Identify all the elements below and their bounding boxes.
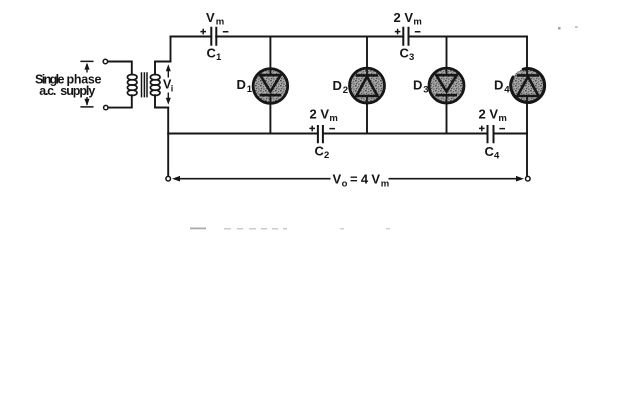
label Vi with arrow	[166, 64, 171, 105]
svg-text:2: 2	[343, 85, 348, 96]
wire input bottom	[108, 95, 132, 107]
scan speck 1	[558, 27, 561, 30]
svg-text:C: C	[315, 144, 325, 159]
wire D2 bottom	[366, 103, 368, 134]
wire D2 top	[366, 37, 368, 69]
faint caption remnants	[190, 228, 390, 230]
capacitor C1 polarity marks	[200, 29, 228, 35]
capacitor C1	[211, 27, 216, 46]
svg-text:2: 2	[324, 150, 329, 161]
svg-text:C: C	[485, 144, 495, 159]
input terminal bottom	[104, 105, 108, 109]
svg-text:3: 3	[409, 52, 414, 63]
wire top rail	[171, 36, 528, 38]
transformer T1 core	[142, 72, 148, 97]
svg-text:o: o	[342, 178, 348, 189]
diode D4	[511, 69, 545, 103]
capacitor C4 polarity marks	[479, 126, 505, 132]
transformer T1 secondary winding	[150, 75, 160, 96]
wire left vertical (secondary top to top rail)	[170, 37, 172, 62]
svg-text:V: V	[206, 10, 215, 25]
svg-text:= 4 V: = 4 V	[350, 171, 380, 186]
wire input top	[108, 62, 132, 75]
transformer T1 primary winding	[127, 75, 137, 96]
svg-text:m: m	[381, 178, 389, 189]
wire D3 top	[446, 37, 448, 69]
svg-text:D: D	[333, 78, 342, 93]
wire D1 bottom	[269, 103, 271, 133]
svg-text:a.c.: a.c.	[39, 84, 56, 98]
svg-text:C: C	[207, 45, 217, 60]
wire bottom rail	[168, 133, 527, 135]
svg-text:m: m	[329, 113, 337, 124]
svg-text:m: m	[216, 17, 224, 28]
capacitor C2	[318, 125, 323, 143]
input terminal top	[103, 59, 107, 63]
scan speck 2	[575, 26, 578, 28]
svg-text:m: m	[498, 113, 506, 124]
wire secondary top stub	[155, 62, 171, 75]
wire secondary bottom stub	[155, 95, 168, 107]
wire D1 top	[269, 37, 271, 69]
capacitor C4	[488, 125, 494, 143]
svg-text:1: 1	[216, 52, 222, 63]
svg-text:1: 1	[247, 84, 253, 95]
svg-text:2 V: 2 V	[310, 106, 330, 121]
diode D2	[350, 68, 385, 103]
dimension arrow for a.c. supply	[80, 61, 93, 107]
capacitor C2 polarity marks	[309, 126, 335, 132]
svg-text:3: 3	[423, 84, 428, 95]
wire output measure line with arrows	[172, 176, 524, 182]
svg-text:m: m	[413, 16, 421, 27]
capacitor C3	[403, 27, 408, 46]
svg-text:4: 4	[494, 151, 500, 162]
svg-text:C: C	[400, 45, 410, 60]
wire D3 bottom	[446, 103, 448, 134]
svg-text:V: V	[333, 171, 342, 186]
svg-text:2 V: 2 V	[394, 10, 414, 25]
svg-text:i: i	[171, 84, 174, 94]
svg-text:4: 4	[504, 84, 510, 95]
wire left vertical to output terminal	[167, 108, 169, 176]
svg-text:supply: supply	[60, 84, 95, 98]
output terminal right	[526, 176, 531, 181]
svg-text:D: D	[413, 78, 422, 93]
diode D1	[253, 69, 288, 104]
wire D4 bottom to output terminal	[526, 103, 528, 176]
svg-text:D: D	[237, 77, 246, 92]
wire D4 top	[526, 37, 528, 69]
capacitor C3 polarity marks	[395, 29, 421, 35]
output terminal left	[166, 176, 171, 181]
svg-text:2 V: 2 V	[479, 106, 499, 121]
svg-text:D: D	[494, 78, 503, 93]
diode D3	[429, 68, 464, 103]
